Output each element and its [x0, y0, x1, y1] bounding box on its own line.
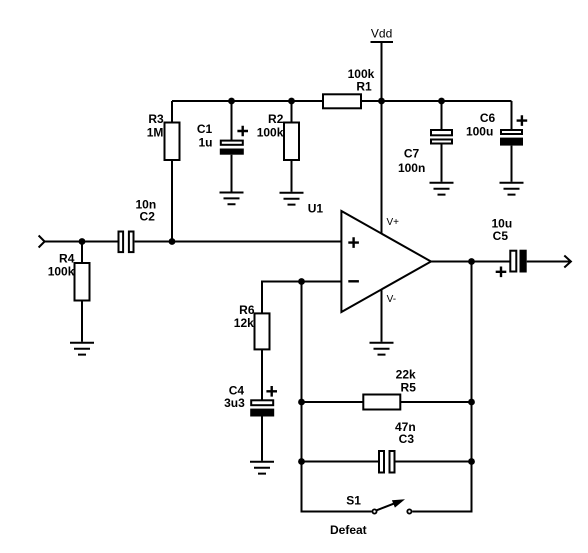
svg-text:R6: R6: [239, 303, 255, 317]
wire input to C2: [45, 241, 118, 243]
svg-text:1M: 1M: [147, 125, 164, 139]
wire C3 left: [302, 461, 379, 463]
node Vdd rail junction: [378, 98, 385, 105]
wire R4 top: [81, 242, 83, 264]
wire C7 top: [441, 101, 443, 130]
plus mark C5: [496, 267, 507, 278]
value 3u3 (C4): [224, 396, 245, 410]
label C5: [493, 229, 509, 243]
ground under R2: [280, 193, 304, 205]
op-amp U1: [341, 211, 431, 312]
wire R3 bottom: [171, 160, 173, 242]
label C1: [197, 122, 213, 136]
node C1 top: [228, 98, 235, 105]
svg-text:C6: C6: [480, 111, 496, 125]
ground under C6: [500, 183, 524, 195]
svg-text:22k: 22k: [396, 368, 416, 382]
ground under C4: [250, 462, 274, 474]
capacitor C7: [431, 130, 452, 144]
node minus bus top: [298, 278, 305, 285]
wire C6 bottom: [511, 146, 513, 182]
svg-text:V-: V-: [387, 294, 396, 305]
wire left bus: [302, 282, 372, 512]
wire C7 bottom: [441, 145, 443, 182]
ground under C1: [220, 193, 244, 205]
wire R2 bottom: [291, 160, 293, 192]
svg-text:V+: V+: [387, 217, 400, 228]
wire C5 to output port: [527, 261, 571, 263]
label C7: [404, 147, 420, 161]
node C7 top: [438, 98, 445, 105]
svg-text:12k: 12k: [234, 316, 254, 330]
wire right bus: [412, 262, 471, 512]
wire C1 top: [231, 101, 233, 141]
label C4: [229, 383, 245, 397]
label C2: [140, 209, 156, 223]
wire R5 left: [302, 401, 364, 403]
svg-text:U1: U1: [308, 202, 324, 216]
wire C1 bottom: [231, 155, 233, 192]
capacitor C5: [510, 250, 526, 273]
ground under R4: [70, 343, 94, 355]
svg-text:Defeat: Defeat: [330, 523, 367, 537]
wire R5 right: [400, 401, 471, 403]
output port arrow: [564, 256, 571, 268]
op-amp minus input mark: [348, 280, 359, 282]
wire top rail left of R1: [172, 100, 323, 102]
svg-text:100u: 100u: [466, 125, 493, 139]
input port arrow: [39, 236, 45, 248]
plus mark C4: [266, 386, 277, 397]
ground under V- pin: [370, 343, 394, 355]
wire op-amp output: [431, 261, 510, 263]
svg-text:R1: R1: [356, 79, 372, 93]
label Defeat: [330, 523, 367, 537]
svg-text:C7: C7: [404, 147, 420, 161]
wire C4 bottom: [261, 417, 263, 461]
label R1: [356, 79, 372, 93]
plus mark C6: [517, 115, 528, 126]
label U1: [308, 202, 324, 216]
node R4 tap: [79, 238, 86, 245]
value 100u (C6): [466, 125, 493, 139]
capacitor C2: [119, 232, 134, 253]
label C6: [480, 111, 496, 125]
svg-text:R5: R5: [401, 380, 417, 394]
wire rail corner down to C6: [511, 101, 513, 130]
node output junction: [468, 258, 475, 265]
svg-text:1u: 1u: [198, 136, 212, 150]
resistor R3: [165, 123, 180, 161]
label R4: [59, 252, 75, 266]
pin label V+: [387, 217, 400, 228]
node R5 right: [468, 399, 475, 406]
svg-text:R2: R2: [268, 112, 284, 126]
resistor R4: [75, 263, 90, 301]
wire minus input to R6: [262, 282, 341, 314]
wire Vdd stem and V+ pin: [381, 42, 383, 234]
switch S1: [372, 499, 411, 513]
label R3: [148, 112, 164, 126]
node C3 left: [298, 458, 305, 465]
svg-text:C5: C5: [493, 229, 509, 243]
wire R3 top: [171, 101, 173, 123]
wire top rail right of R1: [361, 100, 512, 102]
wire R2 top: [291, 101, 293, 123]
label R2: [268, 112, 284, 126]
value 100k (R1): [348, 67, 375, 81]
wire V- pin: [381, 290, 383, 342]
power Vdd: [371, 41, 394, 43]
value 100k (R4): [48, 264, 75, 278]
svg-text:100n: 100n: [398, 161, 425, 175]
plus mark C1: [237, 126, 248, 137]
pin label V-: [387, 294, 396, 305]
resistor R5: [363, 395, 400, 410]
wire C3 right: [395, 461, 472, 463]
ground under C7: [430, 183, 454, 195]
label R6: [239, 303, 255, 317]
value 1u (C1): [198, 136, 212, 150]
node R5 left: [298, 399, 305, 406]
net label Vdd: [371, 27, 392, 41]
value 100n (C7): [398, 161, 425, 175]
op-amp plus input mark: [348, 237, 359, 248]
resistor R2: [284, 123, 299, 161]
wire R6 to C4: [261, 349, 263, 400]
value 10u (C5): [492, 217, 513, 231]
svg-text:S1: S1: [346, 493, 361, 507]
node C3 right: [468, 458, 475, 465]
svg-text:C3: C3: [399, 432, 415, 446]
svg-text:3u3: 3u3: [224, 396, 245, 410]
node R2 top: [288, 98, 295, 105]
svg-text:100k: 100k: [257, 125, 284, 139]
wire R4 bottom: [81, 301, 83, 342]
svg-text:C1: C1: [197, 122, 213, 136]
resistor R1: [323, 94, 361, 108]
wire C2 to op-amp plus input: [135, 241, 342, 243]
resistor R6: [255, 313, 270, 349]
svg-text:R3: R3: [148, 112, 164, 126]
node R3 bottom junction: [169, 238, 176, 245]
value 10n (C2): [136, 198, 157, 212]
capacitor C1: [220, 141, 244, 155]
label C3: [399, 432, 415, 446]
svg-text:C4: C4: [229, 383, 245, 397]
svg-text:100k: 100k: [48, 264, 75, 278]
svg-text:Vdd: Vdd: [371, 27, 392, 41]
value 100k (R2): [257, 125, 284, 139]
svg-text:C2: C2: [140, 209, 156, 223]
capacitor C6: [500, 130, 523, 146]
label S1: [346, 493, 361, 507]
label R5: [401, 380, 417, 394]
capacitor C3: [379, 451, 395, 473]
value 1M (R3): [147, 125, 164, 139]
value 22k (R5): [396, 368, 416, 382]
capacitor C4: [250, 400, 274, 416]
value 47n (C3): [395, 420, 416, 434]
value 12k (R6): [234, 316, 254, 330]
